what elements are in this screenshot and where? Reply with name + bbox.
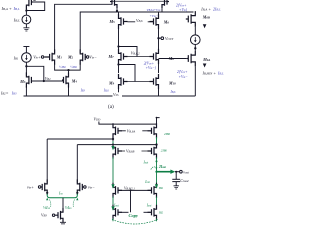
terminal vin- (b) bbox=[84, 186, 86, 188]
wire diff right drain column bbox=[76, 145, 78, 183]
transistor M8 (row2 right PMOS) bbox=[150, 49, 159, 64]
wire IB1 branch to M3 gate bus bbox=[26, 66, 43, 81]
label +Vov row1 (blue) bbox=[147, 8, 162, 18]
label M13 bbox=[108, 81, 115, 86]
svg-text:IB2: IB2 bbox=[158, 210, 164, 214]
svg-text:2IB6: 2IB6 bbox=[164, 132, 171, 136]
label Iss (green) bbox=[58, 190, 68, 195]
label IBL bbox=[13, 17, 20, 23]
wire b mid vertical bbox=[130, 190, 132, 212]
wire to vout terminal bbox=[175, 171, 180, 173]
label IB1 bbox=[13, 56, 19, 61]
wire M12 to rail bbox=[161, 8, 163, 12]
label IB6 left (blue) bbox=[103, 89, 110, 93]
svg-text:+Vm−): +Vm−) bbox=[146, 66, 157, 70]
current source IB1 bbox=[22, 53, 32, 63]
svg-text:+Vov−: +Vov− bbox=[150, 14, 159, 18]
dashed arrow half Iss left bbox=[50, 200, 51, 208]
transistor M14 (row3 right NMOS) bbox=[150, 74, 159, 89]
svg-text:½IB2: ½IB2 bbox=[59, 65, 66, 69]
node IB1 branch bbox=[25, 65, 27, 67]
wire b NMOS A gate bus bbox=[118, 189, 152, 191]
wire b row1 right drain up bbox=[157, 118, 160, 125]
ground (left bias branch) bbox=[23, 28, 29, 31]
node A (M9 drain node) bbox=[25, 9, 27, 11]
svg-text:2IB6: 2IB6 bbox=[161, 149, 168, 153]
svg-text:IB1: IB1 bbox=[13, 56, 19, 61]
svg-text:M1: M1 bbox=[56, 55, 63, 60]
label VDD bbox=[94, 117, 102, 122]
svg-text:M6A: M6A bbox=[202, 57, 210, 62]
node VOUT tap bbox=[157, 37, 159, 39]
transistor M6 (row1 right PMOS) bbox=[150, 14, 159, 29]
label Iout midright (green) bbox=[146, 203, 152, 207]
svg-text:½Iss: ½Iss bbox=[43, 205, 51, 210]
label M4 bbox=[71, 78, 78, 83]
svg-text:IB3: IB3 bbox=[80, 88, 86, 92]
label vin- (b) bbox=[88, 184, 95, 189]
label half IB2 right (blue) bbox=[70, 65, 77, 69]
transistor MB7 (b NMOS B left) bbox=[113, 205, 122, 220]
svg-text:+Vm−: +Vm− bbox=[179, 75, 189, 79]
label M3 bbox=[19, 79, 26, 84]
wire b bottom sources bbox=[113, 219, 157, 222]
label M7 bbox=[108, 54, 115, 59]
terminal VOUT bbox=[161, 37, 164, 40]
svg-text:IB2: IB2 bbox=[158, 186, 164, 190]
svg-text:VOUT: VOUT bbox=[165, 36, 174, 41]
wire M1 M2 common source bbox=[55, 64, 81, 71]
current arrow M6A bbox=[203, 63, 207, 67]
green arrow NMOS B left drain bbox=[111, 206, 114, 210]
node below current source bbox=[194, 47, 196, 49]
wire b left col A-B (green) bbox=[112, 197, 114, 207]
wire IB1 down to M3 drain bbox=[25, 62, 27, 76]
svg-text:Copy: Copy bbox=[129, 213, 140, 218]
node M3 gate bus bbox=[43, 80, 45, 82]
svg-text:Iss: Iss bbox=[58, 190, 64, 195]
label IB2 B (green) bbox=[158, 210, 164, 214]
wire row1 gate bus bbox=[128, 21, 154, 23]
label Iout midleft (green) bbox=[113, 203, 119, 207]
svg-text:IB,6: IB,6 bbox=[170, 90, 177, 94]
label blue row2 annotation bbox=[144, 62, 157, 71]
label Copy (green) bbox=[129, 213, 140, 218]
svg-text:½IB2: ½IB2 bbox=[70, 65, 77, 69]
wire row3 gate bus bbox=[124, 81, 154, 83]
label half IB2 left (blue) bbox=[59, 65, 66, 69]
label blue above M6B bbox=[176, 3, 188, 12]
label VB6B bbox=[125, 148, 142, 155]
svg-text:IB3: IB3 bbox=[11, 91, 17, 96]
label VOUT bbox=[165, 36, 174, 41]
green arrow NMOS A right drain bbox=[155, 184, 158, 188]
green arrow row2 left drain bbox=[111, 146, 114, 150]
svg-text:2(Vov+: 2(Vov+ bbox=[176, 3, 187, 7]
transistor M1 bbox=[44, 49, 54, 64]
T-bar IB1 supply bbox=[23, 47, 29, 53]
label half Iss right (green) bbox=[65, 205, 73, 210]
svg-text:M10: M10 bbox=[168, 80, 176, 85]
green arrow NMOS A left drain bbox=[111, 184, 114, 188]
wire common source to M4 bbox=[68, 70, 70, 73]
label M1 bbox=[56, 55, 63, 60]
wire diff left drain to left column bbox=[47, 138, 113, 140]
wire row1 sources to rail bbox=[119, 12, 159, 14]
label M2 bbox=[67, 55, 74, 60]
capacitor Cload bbox=[172, 172, 180, 186]
wire b left column green bbox=[112, 157, 114, 186]
node green right column bbox=[156, 160, 158, 162]
label IB2=IB3 bbox=[0, 91, 17, 96]
transistor M4 bbox=[62, 72, 69, 87]
svg-text:Cload: Cload bbox=[180, 178, 189, 183]
wire b right col A-B (green) bbox=[156, 197, 158, 207]
wire b row2 gate bus bbox=[118, 150, 152, 152]
svg-text:M3: M3 bbox=[19, 79, 26, 84]
transistor MB6 (b NMOS A right) bbox=[148, 183, 157, 198]
svg-text:M6: M6 bbox=[163, 20, 170, 25]
wire row2-row3 right column bbox=[158, 63, 160, 73]
current source IB (right branch) bbox=[191, 35, 201, 45]
terminal vout bbox=[180, 170, 183, 173]
wire diff right drain to right column bbox=[77, 144, 156, 146]
svg-text:M5: M5 bbox=[109, 19, 116, 24]
transistor MB8 (b NMOS B right) bbox=[148, 205, 157, 220]
svg-text:M6B: M6B bbox=[202, 15, 210, 20]
svg-text:+Vm): +Vm) bbox=[179, 8, 188, 12]
label 2IB6 row1 (green) bbox=[164, 132, 171, 136]
wire b right column green mid bbox=[156, 172, 158, 186]
label VB6A bbox=[126, 127, 143, 134]
label M6A bbox=[202, 57, 210, 62]
wire row1 to row2 left column bbox=[118, 29, 120, 51]
wire M6B drain to current source bbox=[194, 27, 196, 35]
terminal Vin+ bbox=[41, 56, 43, 58]
label VSS bbox=[113, 92, 123, 97]
label M5 bbox=[109, 19, 116, 24]
node b output bbox=[155, 171, 157, 173]
transistor M11 (top PMOS left) bbox=[110, 0, 117, 8]
bracket end dots bbox=[46, 192, 78, 201]
label (a) bbox=[108, 103, 114, 110]
svg-text:Iout: Iout bbox=[143, 160, 149, 164]
node cap tap bbox=[175, 171, 177, 173]
wire row1 to row2 right column bbox=[158, 29, 160, 51]
wire VOUT tap bbox=[159, 37, 161, 39]
wire M6A source to VSS rail bbox=[194, 66, 196, 96]
label Iout upper (green) bbox=[143, 160, 149, 164]
transistor MB4 (b row2 right PMOS) bbox=[148, 143, 157, 158]
node row3 link bbox=[117, 63, 119, 65]
transistor M9 (top-left PMOS) bbox=[26, 0, 33, 9]
wire tail source down bbox=[62, 220, 64, 223]
wire diff left drain column bbox=[46, 139, 48, 183]
svg-text:Iout: Iout bbox=[146, 203, 152, 207]
wire M6A gate to right column bbox=[159, 58, 187, 60]
svg-text:(a): (a) bbox=[108, 103, 114, 110]
svg-text:½Iss: ½Iss bbox=[65, 205, 73, 210]
label IBA+2IBL bbox=[200, 7, 221, 13]
svg-text:VSS: VSS bbox=[113, 92, 119, 97]
wire M11 to rail bbox=[116, 8, 118, 12]
dashed arrow half Iss right bbox=[73, 200, 74, 208]
wire M3 source to rail bbox=[25, 86, 27, 96]
transistor M6A bbox=[187, 51, 196, 67]
wire bracket to tail bbox=[62, 198, 64, 208]
terminal vin+ (b) bbox=[38, 186, 40, 188]
label M8 bbox=[168, 56, 175, 61]
svg-text:VB2: VB2 bbox=[45, 76, 51, 81]
svg-text:VB,6A+Vov: VB,6A+Vov bbox=[147, 8, 162, 12]
label Vin- bbox=[89, 54, 97, 59]
svg-text:Vin+: Vin+ bbox=[33, 54, 41, 59]
svg-text:vout: vout bbox=[183, 170, 189, 175]
svg-text:Iout: Iout bbox=[144, 180, 150, 184]
node row2 bus junction bbox=[117, 45, 119, 47]
svg-text:VDD: VDD bbox=[94, 117, 102, 122]
wire b NMOS B gate bus bbox=[118, 211, 152, 213]
wire row2 gate bus bbox=[128, 56, 154, 58]
wire b right column green upper bbox=[156, 157, 158, 172]
wire VSS rail bbox=[24, 95, 196, 97]
svg-text:Vin−: Vin− bbox=[89, 54, 97, 59]
label half Iss left (green) bbox=[43, 205, 51, 210]
wire row3 gate diode link bbox=[119, 65, 136, 82]
node b row1 right drain bbox=[156, 117, 158, 119]
svg-text:M7: M7 bbox=[108, 54, 115, 59]
current arrow M6B bbox=[203, 24, 207, 28]
svg-text:2(Vov+: 2(Vov+ bbox=[144, 62, 155, 66]
transistor M13 (row3 left NMOS) bbox=[119, 74, 128, 89]
wire gate loop of M9 bbox=[33, 0, 35, 1]
terminal VB3 bbox=[52, 214, 54, 216]
transistor M6B bbox=[186, 11, 196, 27]
wire b right column row1-row2 bbox=[156, 137, 158, 146]
ground (Cload) bbox=[174, 186, 179, 189]
label VB2 bbox=[45, 76, 51, 81]
wire left branch down bbox=[25, 6, 27, 15]
svg-text:IB,6: IB,6 bbox=[103, 89, 110, 93]
label IB3 (blue) bbox=[80, 88, 86, 92]
wire M4 source to rail bbox=[68, 86, 70, 96]
output arrow 2Iout (green) bbox=[157, 170, 176, 174]
wire M9 diode loop bbox=[26, 2, 44, 11]
wire current source to ground bbox=[25, 24, 27, 28]
node b left column join bbox=[112, 138, 114, 140]
svg-text:IB2=: IB2= bbox=[0, 91, 9, 96]
label M6B bbox=[202, 15, 210, 20]
wire net C / top rail bbox=[80, 12, 193, 53]
wire b row1 gate bus bbox=[118, 130, 152, 132]
current source IBL (left bias branch) bbox=[22, 15, 31, 24]
wire M3-M4 gate bus bbox=[31, 80, 63, 82]
wire b top rail bbox=[113, 124, 157, 126]
copy arc (green dashed) bbox=[112, 220, 158, 225]
label IB2 A (green) bbox=[158, 186, 164, 190]
transistor M12 (top PMOS right) bbox=[162, 0, 169, 8]
wire row3 to VSS left bbox=[118, 88, 120, 96]
transistor M7 (row2 left PMOS) bbox=[119, 49, 128, 64]
ground (tail) bbox=[60, 222, 66, 225]
transistor MB9 (diff left) bbox=[41, 179, 47, 194]
transistor MB3 (b row2 left PMOS) bbox=[113, 143, 122, 158]
wire row2-row3 left column bbox=[118, 63, 120, 73]
label 2Iout (green) bbox=[158, 165, 166, 169]
wire left column to row2 gate bus bbox=[119, 47, 138, 57]
label blue below M6A bbox=[177, 70, 188, 79]
label Iout lower (green) bbox=[144, 180, 150, 184]
transistor MB5 (b NMOS A left) bbox=[113, 183, 122, 198]
transistor M3 bbox=[26, 72, 32, 87]
transistor MB11 (tail) bbox=[55, 208, 63, 223]
node M11 drain on rail bbox=[116, 10, 118, 12]
terminal Vin- bbox=[86, 56, 88, 58]
svg-text:2(Vov+: 2(Vov+ bbox=[177, 70, 188, 74]
svg-text:2Iout: 2Iout bbox=[158, 165, 166, 169]
svg-text:vin+: vin+ bbox=[27, 184, 34, 189]
wire row3 to VSS right bbox=[158, 88, 160, 96]
svg-text:vin−: vin− bbox=[88, 184, 95, 189]
transistor MB2 (b row1 right PMOS) bbox=[148, 123, 157, 138]
wire VDD stub bbox=[99, 122, 157, 125]
label M14 bbox=[168, 80, 176, 85]
svg-text:VB3: VB3 bbox=[41, 213, 47, 218]
transistor M2 bbox=[80, 49, 86, 64]
wire current source to M6A bbox=[194, 45, 196, 51]
wire b left column row1-row2 bbox=[112, 137, 114, 146]
label vin+ (b) bbox=[27, 184, 34, 189]
label VB62 gate bus bbox=[131, 51, 140, 57]
label VBM2 bus bbox=[124, 187, 135, 191]
transistor M5 (row1 left PMOS) bbox=[119, 14, 128, 29]
svg-text:M2: M2 bbox=[67, 55, 74, 60]
transistor MB1 (b row1 left PMOS) bbox=[113, 123, 122, 138]
label Vin+ bbox=[33, 54, 41, 59]
node b NMOS A bus bbox=[130, 190, 132, 192]
transistor MB10 (diff right) bbox=[77, 179, 83, 194]
label IBMIN+IBL bbox=[202, 70, 225, 76]
node b right column join bbox=[155, 143, 157, 145]
label IBA+IBL bbox=[1, 6, 20, 12]
label Cload bbox=[180, 178, 189, 183]
wire net B (M1 drain to top gates) bbox=[55, 4, 112, 53]
label VB6 gate bus bbox=[135, 18, 148, 24]
label vout bbox=[183, 170, 189, 175]
svg-text:M9: M9 bbox=[108, 81, 115, 86]
curved arrow at output node (green) bbox=[151, 167, 158, 170]
label 2IB6 row2 (green) bbox=[161, 149, 168, 153]
svg-text:M4: M4 bbox=[71, 78, 78, 83]
label M6 bbox=[163, 20, 170, 25]
label VB3 bbox=[41, 213, 47, 218]
node common source bbox=[67, 69, 69, 71]
wire top gate link bbox=[112, 0, 167, 2]
label IB6 right (blue) bbox=[170, 90, 177, 94]
green source bracket bbox=[47, 192, 77, 198]
